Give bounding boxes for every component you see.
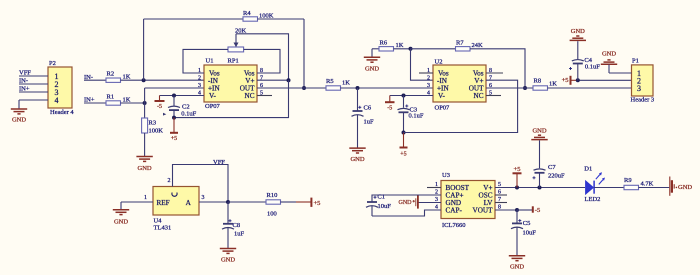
ground GND (P2 pin4) [11,109,27,123]
svg-text:D1: D1 [584,165,592,172]
capacitor C5 10uF [511,210,536,256]
svg-text:C6: C6 [364,105,372,112]
svg-text:100K: 100K [149,128,164,135]
wire IN+ to R1 [84,102,106,104]
svg-text:-5: -5 [387,106,392,112]
junction VFF/R10/C8 [226,200,230,204]
svg-text:RP1: RP1 [228,58,239,65]
capacitor C8 1uF [222,202,245,249]
connector P1 (Header 3) [631,58,655,104]
svg-text:4.7K: 4.7K [641,181,654,188]
svg-text:+5: +5 [400,152,406,158]
wire node to R3 [144,103,146,118]
op-amp U2 OP07 [427,59,492,112]
resistor R9 [624,177,654,190]
wire U1 pin6 OUT [257,87,326,89]
junction C3 bottom [402,131,406,135]
svg-text:1K: 1K [342,79,350,86]
svg-text:GND: GND [510,263,524,270]
wire U2 pin4 V- [390,95,433,97]
svg-text:C1: C1 [377,194,385,201]
pin U2-1 stub [419,72,433,74]
power port +5 (R10) [296,198,320,207]
power port +5 (P1 pin2) [562,76,578,85]
svg-text:0.1uF: 0.1uF [585,64,600,71]
charge pump U3 ICL7660 [435,172,501,229]
svg-text:R5: R5 [326,78,334,85]
svg-text:1K: 1K [396,42,404,49]
svg-text:0.1uF: 0.1uF [181,111,196,118]
wire C1 to U3 pin4 CAP- [372,210,441,216]
wire GND to P1 pin1 [609,72,632,74]
svg-text:1uF: 1uF [234,230,245,237]
power port -5 (U1 V-) [155,96,165,111]
junction node IN- feedback [142,78,146,82]
svg-text:R2: R2 [107,71,115,78]
junction C6 top [356,86,360,90]
resistor R5 [326,78,350,90]
svg-text:1K: 1K [123,96,131,103]
ground GND (above C4) [570,28,586,59]
svg-text:R6: R6 [380,40,388,47]
svg-text:220uF: 220uF [548,173,565,180]
svg-text:U3: U3 [442,172,450,179]
svg-text:C2: C2 [182,103,190,110]
svg-text:ICL7660: ICL7660 [442,222,465,229]
svg-text:4: 4 [55,96,59,105]
capacitor C1 10uF [366,194,391,216]
wire R4 left drop [143,19,145,80]
capacitor C4 0.1uF [569,57,600,81]
power port +5 (U3 V+) [513,166,522,188]
svg-text:3: 3 [637,84,641,93]
net label IN- (R2 input) [84,74,93,81]
svg-text:R4: R4 [243,10,251,17]
svg-text:NC: NC [245,92,255,100]
svg-text:R3: R3 [149,120,157,127]
power port -5 (U2 V-) [385,96,395,112]
svg-text:R7: R7 [456,40,464,47]
wire R6 to node [394,48,411,50]
svg-text:U4: U4 [154,218,163,225]
svg-text:+5: +5 [314,200,321,207]
wire LED to R9 [594,187,624,189]
svg-text:-5: -5 [535,207,540,214]
resistor R7 [456,40,484,52]
svg-text:2: 2 [198,76,201,82]
svg-text:P2: P2 [49,60,56,67]
svg-text:VFF: VFF [19,70,31,77]
svg-text:GND: GND [365,66,379,73]
junction +5 stem [515,186,519,190]
power port GND bar (U3 pin3) [399,196,418,209]
potentiometer RP1 20K [228,28,247,52]
resistor R4 [243,10,274,21]
svg-text:10uF: 10uF [523,230,537,237]
svg-text:IN-: IN- [19,78,28,85]
wire U1 pin1 to pot left [183,49,228,73]
svg-text:+5: +5 [562,77,569,84]
wire V+ down to +5 run [174,80,289,117]
capacitor C3 0.1uF [398,96,424,133]
power port +5 (below C3) [400,133,408,158]
resistor R6 [379,40,404,52]
wire node to R7 [411,48,456,50]
svg-text:R10: R10 [267,192,278,199]
ground GND (C6) [349,148,365,163]
wire U3 pin2 CAP+ [372,195,441,202]
svg-text:CAP-: CAP- [446,207,463,215]
svg-text:REF: REF [157,199,170,207]
wire jog to U1 pin3 [145,88,204,103]
junction VOUT node [515,208,519,212]
wire P2 pin4 to ground [19,100,48,109]
svg-text:GND: GND [678,184,692,191]
svg-text:GND: GND [114,218,128,225]
svg-text:Header 3: Header 3 [631,96,655,103]
svg-text:1K: 1K [123,74,131,81]
power port +5 (below C2) [170,118,178,142]
wire R7 to OUT drop [470,49,525,88]
svg-text:OP07: OP07 [205,103,221,110]
pin U3-7 LV stub [495,202,507,204]
wire R5 to U2 pin3 [341,87,434,89]
wire R8 to P1 pin3 [548,87,632,89]
wire U1 pin7 V+ [257,79,289,81]
pin U1-5 NC stub [257,95,272,97]
svg-text:A: A [186,199,192,207]
voltage ref U4 TL431 [144,178,205,232]
junction V+ node U1 [287,78,291,82]
svg-text:10uF: 10uF [378,203,392,210]
svg-text:VOUT: VOUT [473,207,494,215]
junction node +IN/R3 [143,101,147,105]
wire R4 top left [144,18,243,20]
ground GND (C8) [220,249,236,264]
svg-text:R1: R1 [107,93,115,100]
resistor R1 [106,93,131,105]
svg-text:P1: P1 [632,58,639,65]
net label IN+ (R1 input) [84,97,95,104]
junction C7 bottom [538,186,542,190]
svg-text:TL431: TL431 [154,225,172,232]
wire U1 pin4 V- [160,95,205,97]
wire U3 pin8 VOUT [495,209,517,211]
wire U3 pin5 V+ to LED [495,187,585,189]
ground GND (R6) [364,49,380,73]
pin U3-1 BOOST stub [427,187,441,189]
wire R2 to U1 pin2 [121,79,205,81]
pin U2-8 stub [486,72,503,74]
resistor R3 [142,118,164,135]
svg-text:GND: GND [12,116,26,123]
wire GND to R6 [372,48,379,50]
svg-text:1K: 1K [549,81,557,88]
junction C4 bottom [576,78,580,82]
op-amp U1 OP07 [198,58,263,111]
svg-text:Header 4: Header 4 [50,109,74,116]
svg-text:R9: R9 [624,177,632,184]
connector P2 (Header 4) [48,60,74,116]
power port -5 (VOUT) [517,206,540,214]
svg-text:2: 2 [168,178,171,184]
wire R3 to ground [144,133,146,157]
svg-text:+5: +5 [514,166,521,173]
svg-text:0.1uF: 0.1uF [409,113,424,120]
wire U4 pin1 to ground [121,202,153,210]
wire R10 to +5 [281,201,297,203]
ground GND (C5) [509,256,525,270]
svg-text:V-: V- [209,92,217,100]
svg-text:C8: C8 [233,222,241,229]
junction C2 top [172,94,176,98]
junction C3 top [402,94,406,98]
svg-text:VFF: VFF [213,159,225,166]
svg-text:1uF: 1uF [364,119,375,126]
svg-text:GND: GND [602,51,616,58]
svg-text:LED2: LED2 [585,196,601,203]
wire U2 pin6 OUT [486,87,533,89]
capacitor C2 0.1uF [163,96,197,118]
svg-text:3: 3 [198,83,201,89]
wire R9 to +GND [639,187,670,189]
junction R7/OUT U2 [523,86,527,90]
wire IN- to R2 [84,79,106,81]
svg-text:R8: R8 [534,78,542,85]
wire U3 pin3 GND [419,202,442,204]
wire P2 pin2 [19,83,48,85]
junction R4/OUT [302,86,306,90]
ground GND (above C7) [531,128,547,169]
wire +5 to P1 pin2 [578,79,632,81]
svg-text:IN+: IN+ [19,86,30,93]
svg-text:3: 3 [202,195,205,201]
net label IN- (P2) [19,78,28,85]
net label VFF (U4) [213,159,225,166]
wire P2 pin3 [19,91,48,93]
svg-text:+5: +5 [171,136,177,142]
svg-text:GND: GND [221,256,235,263]
svg-text:100K: 100K [259,12,274,19]
svg-text:GND: GND [399,200,413,206]
ground GND (R3) [136,157,152,173]
svg-text:3: 3 [427,83,430,89]
svg-text:U1: U1 [206,58,214,65]
wire node to R10 [228,201,266,203]
svg-text:C7: C7 [548,164,556,171]
net label VFF [19,70,31,77]
svg-text:GND: GND [571,28,585,35]
wire P2 pin1 [19,75,48,77]
net label IN+ (P2) [19,86,30,93]
wire pot wiper to V+ [236,34,289,80]
wire node to U2 pin2 [411,49,434,80]
junction C2 bottom [172,116,176,120]
svg-text:24K: 24K [472,42,484,49]
svg-text:C5: C5 [523,220,531,227]
svg-text:2: 2 [427,76,430,82]
resistor R2 [106,71,131,83]
svg-text:-5: -5 [157,104,162,110]
wire U4 pin2 VFF loop [173,165,229,203]
svg-text:NC: NC [474,92,484,100]
wire U2 V+ loop [404,80,518,132]
LED D1 LED2 [584,165,605,203]
svg-text:100: 100 [267,211,277,218]
svg-text:GND: GND [532,128,546,135]
wire R4 top right [258,19,305,88]
svg-text:GND: GND [138,165,152,172]
svg-text:1: 1 [144,195,147,201]
pin U3-6 OSC stub [495,194,507,196]
resistor R10 [266,192,281,218]
wire R1 to node [121,102,145,104]
capacitor C6 1uF [352,88,375,148]
capacitor C7 220uF [533,164,566,188]
power port +GND (bar) [670,177,693,196]
svg-text:V-: V- [438,92,446,100]
ground GND (U4 pin1) [113,210,129,226]
junction R6/R7/-IN [409,47,413,51]
wire U4 pin3 [199,201,228,203]
ground GND (P1 pin1) [601,51,617,74]
svg-text:U2: U2 [435,59,443,66]
svg-text:OP07: OP07 [435,104,451,111]
resistor R8 [533,78,557,91]
wire U1 pin8 to pot right [244,49,280,73]
pin U2-5 NC stub [486,95,501,97]
svg-text:GND: GND [350,156,364,163]
